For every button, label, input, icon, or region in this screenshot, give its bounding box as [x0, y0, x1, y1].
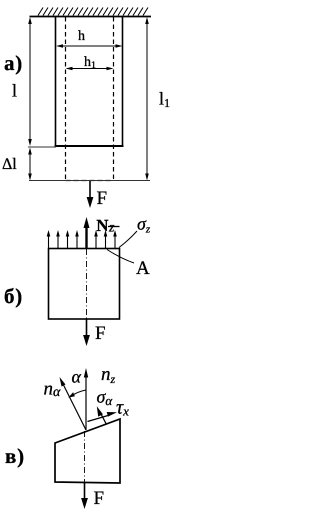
dimension h line: [56, 44, 123, 48]
svg-text:F: F: [97, 188, 108, 209]
stretched bar dashed bottom edge: [66, 180, 114, 182]
svg-text:N: N: [96, 216, 109, 235]
extension tick at bar bottom: [28, 146, 56, 148]
svg-text:F: F: [95, 323, 106, 344]
svg-text:F: F: [94, 488, 105, 509]
resultant N arrow: [84, 217, 90, 248]
axis dash-dot line (b): [86, 249, 88, 319]
force F arrow (diagram v): [81, 483, 88, 509]
axis dash-dot line (v): [84, 431, 86, 482]
svg-text:h: h: [78, 29, 85, 44]
angle alpha arc: [68, 390, 86, 398]
svg-text:l: l: [12, 81, 17, 101]
dimension l1 line: [145, 17, 149, 181]
dimension delta-l line: [28, 148, 32, 181]
svg-text:α: α: [72, 367, 82, 387]
svg-text:Δl: Δl: [2, 156, 17, 173]
ceiling hatching: [38, 8, 148, 16]
element square: [49, 249, 120, 320]
svg-text:A: A: [136, 258, 150, 279]
svg-text:z: z: [108, 221, 115, 236]
svg-text:б): б): [4, 284, 23, 308]
svg-text:в): в): [5, 444, 25, 468]
bar bottom edge: [55, 145, 124, 147]
extension line at stretched bottom: [29, 180, 150, 182]
stretched bar dashed left edge: [65, 17, 67, 180]
bar right edge: [122, 17, 124, 148]
leader line A: [107, 250, 134, 264]
leader line sigma-z: [119, 231, 137, 248]
force F arrow (diagram b): [83, 319, 90, 346]
force F arrow (diagram a): [87, 181, 94, 208]
stress tau-x arrow: [88, 412, 118, 422]
stretched bar dashed right edge: [113, 17, 115, 180]
ceiling line: [30, 16, 152, 18]
bar left edge: [55, 17, 57, 148]
normal n-alpha arrow: [60, 377, 87, 430]
dimension h1 line: [66, 67, 114, 71]
dimension l line: [28, 17, 32, 146]
svg-text:а): а): [4, 51, 23, 75]
stress arrows sigma-z row: [49, 234, 116, 248]
sectioned element outline: [55, 419, 120, 483]
stress sigma-alpha arrow: [97, 406, 107, 424]
normal n-z arrow: [84, 368, 88, 430]
label N z-bar: [96, 216, 119, 236]
